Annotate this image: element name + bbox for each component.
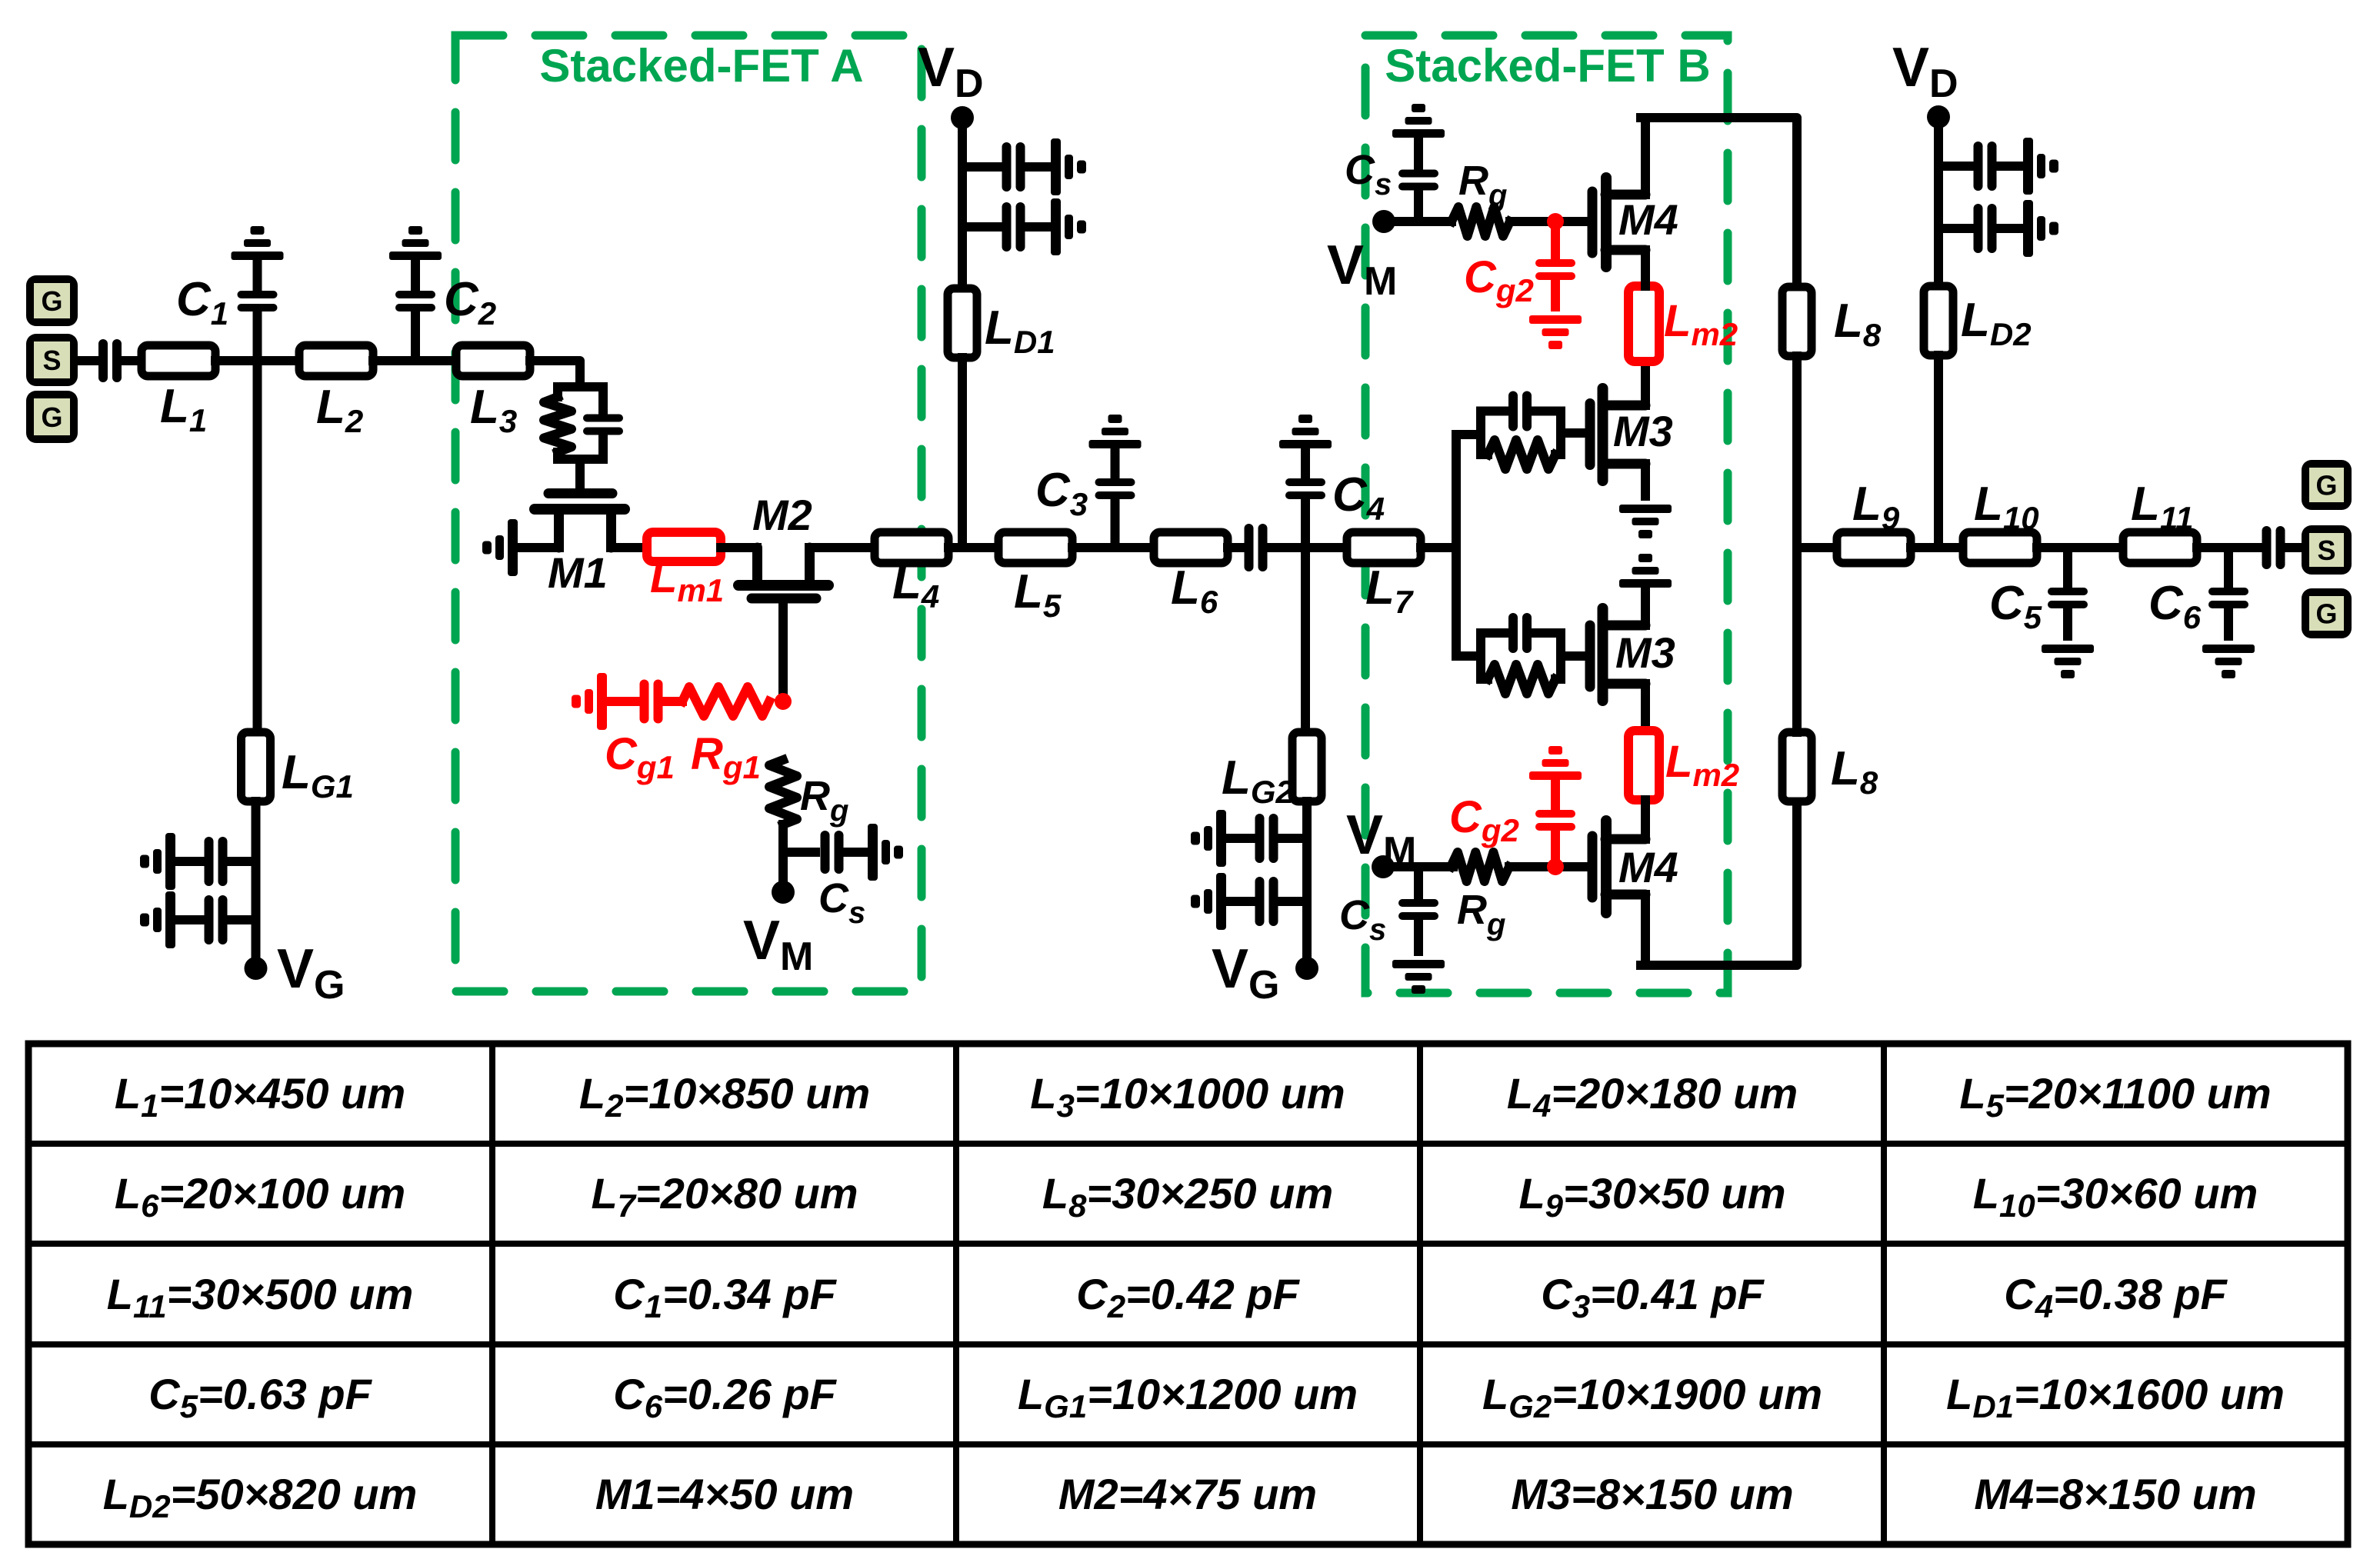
series capacitor at input: [98, 339, 122, 382]
wire bypass 2 to ground: [175, 915, 204, 924]
svg-text:M4=8×150 um: M4=8×150 um: [1974, 1470, 2256, 1518]
transmission line L7: [1347, 532, 1421, 563]
red resistor Rg1: [682, 687, 769, 716]
ground left of bypass 1: [140, 833, 175, 890]
wire C4 stem: [1301, 498, 1310, 548]
wire bypass 1 to ground: [175, 857, 204, 866]
red node M4 gate bottom: [1547, 858, 1564, 875]
transmission line L8 top: [1782, 287, 1812, 356]
bypass capacitor 2 at VG left: [205, 895, 228, 944]
lower RC loop top bar left: [1481, 628, 1509, 638]
ground right of Cs A: [868, 824, 903, 881]
node VD right: [1927, 105, 1950, 128]
wire C2 to ground: [411, 260, 420, 291]
wire bypass 1 VD right ground: [1996, 162, 2023, 171]
bottom rail to right column: [1641, 801, 1797, 965]
wire upper M3 source down: [1641, 464, 1650, 496]
wire bypass 1 VD to ground: [1025, 162, 1051, 172]
wire S pad to input cap: [78, 356, 98, 365]
resistor in upper M3 gate loop: [1488, 440, 1555, 469]
ground above C4: [1279, 415, 1332, 448]
wire C3 stem: [1111, 498, 1120, 548]
red node at M2 gate: [775, 693, 792, 710]
upper RC loop right side: [1556, 411, 1565, 455]
svg-text:L8=30×250 um: L8=30×250 um: [1042, 1169, 1333, 1224]
node VG right: [1295, 957, 1318, 980]
mirror ground above lower M3: [1619, 554, 1672, 588]
upper RC loop bottom lead right: [1555, 450, 1561, 459]
wire to upper RC loop: [1456, 430, 1481, 439]
capacitor Cs stacked-FET A: [821, 831, 844, 874]
wire lower loop to M3 gate: [1561, 651, 1586, 661]
ground above Cs top B: [1392, 104, 1445, 138]
svg-text:S: S: [2317, 535, 2335, 566]
pad G output top: [2302, 460, 2352, 510]
svg-text:L3=10×1000 um: L3=10×1000 um: [1030, 1069, 1345, 1124]
upper RC loop left side: [1476, 411, 1485, 455]
ground below upper M3: [1619, 505, 1672, 538]
transmission line L10: [1963, 532, 2037, 563]
transmission line LD2: [1924, 286, 1953, 355]
transmission line L5: [998, 532, 1072, 563]
transmission line L8 bottom: [1782, 732, 1812, 801]
wire C4 node to L7: [1305, 543, 1347, 552]
wire VM to Rg top: [1384, 217, 1452, 226]
transmission line L11: [2123, 532, 2197, 563]
wire bypass 2 VD to ground: [1025, 222, 1051, 232]
node VM bottom B: [1372, 855, 1395, 878]
transistor M3 lower: [1590, 608, 1645, 701]
svg-text:L1=10×450 um: L1=10×450 um: [115, 1069, 405, 1124]
red matching line Lm2 bottom: [1628, 731, 1659, 800]
RC loop A left side lower: [553, 452, 562, 459]
svg-text:G: G: [41, 401, 62, 433]
wire C2 stem: [411, 311, 420, 361]
transmission line LG1: [242, 732, 271, 801]
series capacitor after L6: [1245, 524, 1268, 571]
capacitor C5: [2048, 588, 2088, 608]
node VM A: [772, 881, 795, 904]
wire C5 stem: [2063, 548, 2072, 588]
wire lower M3 source down: [1641, 684, 1650, 731]
red wire Cg1 to Rg1: [662, 697, 682, 706]
svg-text:S: S: [42, 345, 61, 376]
wire Cs top to ground: [1414, 138, 1423, 169]
RC loop A bottom bar: [558, 455, 603, 464]
wire bypass branch 2 left: [228, 915, 256, 924]
wire C1 to ground: [253, 260, 262, 291]
wire L3 to gate network corner: [530, 361, 580, 387]
svg-text:Stacked-FET B: Stacked-FET B: [1385, 40, 1710, 92]
svg-text:G: G: [41, 285, 62, 317]
upper RC loop bottom lead left: [1481, 450, 1488, 459]
ground below C6: [2202, 645, 2255, 678]
ground of VD bypass 2: [1051, 198, 1086, 255]
red node M4 gate top: [1547, 213, 1564, 230]
RC loop A right side upper: [598, 387, 608, 415]
wire M1 drain to Lm1: [611, 543, 647, 552]
ground left of bypass 2: [140, 891, 175, 948]
red wire ground to Cg1: [607, 697, 637, 706]
red capacitor Cg1: [640, 680, 663, 724]
wire VM to Rg bottom: [1383, 862, 1453, 871]
node VG left: [245, 957, 268, 980]
wire L4 to L5: [948, 543, 998, 552]
wire mirror ground to lower M3 drain: [1641, 588, 1650, 625]
ground at M1 source: [482, 519, 518, 576]
svg-text:G: G: [2315, 470, 2337, 501]
wire bypass branch 2 VD left: [962, 222, 1002, 232]
wire bypass branch 2 right VG: [1278, 897, 1307, 906]
wire series cap to C4 node: [1268, 543, 1305, 552]
ground of VG right bypass 1: [1191, 810, 1226, 867]
wire LD2 to output row: [1934, 355, 1943, 548]
wire bypass branch 1 VD right: [1938, 162, 1974, 171]
transmission line L9: [1837, 532, 1911, 563]
red Cg2 top lower stem: [1551, 281, 1560, 307]
red ground above Cg2 bottom: [1529, 746, 1582, 780]
pad S input: [26, 334, 78, 386]
transmission line L1: [142, 345, 215, 376]
capacitor C2: [395, 291, 435, 311]
pad G input top: [26, 275, 78, 326]
wire gate feed vertical: [1452, 435, 1461, 656]
wire L9 to L10: [1911, 543, 1963, 552]
wire bypass branch 2 VD right: [1938, 224, 1974, 233]
wire node to LG2: [1301, 548, 1310, 732]
wire L1 to L2: [215, 356, 299, 365]
table row line 3: [28, 1341, 2348, 1347]
svg-text:M3=8×150 um: M3=8×150 um: [1511, 1470, 1793, 1518]
wire Lm1 to M2: [721, 543, 757, 552]
wire upper loop to M3 gate: [1561, 428, 1586, 438]
svg-text:M3: M3: [1613, 407, 1673, 455]
svg-text:G: G: [2315, 598, 2337, 630]
wire Cs stem top B: [1414, 192, 1423, 222]
table column line 4: [1881, 1044, 1887, 1544]
bypass capacitor 1 at VG right: [1255, 814, 1278, 863]
top rail to right column: [1641, 118, 1797, 287]
lower RC loop bottom lead right: [1555, 675, 1561, 684]
svg-text:Stacked-FET A: Stacked-FET A: [539, 40, 863, 92]
wire M2 gate stem: [778, 603, 788, 701]
wire L2 to L3: [373, 356, 456, 365]
wire Rg to M4 gate node top: [1510, 217, 1588, 226]
wire bypass 2 VD right ground: [1996, 224, 2023, 233]
red capacitor Cg2 bottom: [1535, 810, 1575, 831]
bypass capacitor 2 at VD right: [1974, 204, 1997, 253]
resistor in M1 gate network: [544, 397, 572, 452]
table row line 4: [28, 1441, 2348, 1447]
wire L10 to L11: [2037, 543, 2123, 552]
wire C6 stem: [2224, 548, 2233, 588]
ground above C1: [232, 226, 284, 260]
transistor M2: [738, 548, 828, 598]
table frame: [28, 1044, 2348, 1544]
wire Rg to VM: [778, 824, 788, 892]
transistor M4 top: [1592, 178, 1645, 267]
upper RC loop top bar right: [1531, 407, 1561, 416]
resistor Rg top B: [1452, 207, 1510, 236]
pad S output: [2302, 525, 2352, 575]
wire loop A to M1 gate: [575, 459, 585, 484]
wire L6 to series cap: [1228, 543, 1245, 552]
wire bypass branch 1 right VG: [1278, 834, 1307, 843]
svg-text:L4=20×180 um: L4=20×180 um: [1507, 1069, 1798, 1124]
bypass capacitor 2 at VG right: [1255, 877, 1278, 926]
wire M4 bottom drain to Lm2: [1641, 800, 1650, 839]
svg-text:M2=4×75 um: M2=4×75 um: [1058, 1470, 1317, 1518]
ground of VG right bypass 2: [1191, 873, 1226, 930]
wire bypass 1 right VG ground: [1226, 834, 1255, 843]
wire Cs bottom to ground: [1414, 920, 1423, 951]
wire LG2 to VG right: [1302, 801, 1312, 968]
lower RC loop right side: [1556, 633, 1565, 679]
red Cg2 bottom stem: [1551, 828, 1560, 867]
wire output cap to S pad: [2285, 543, 2302, 552]
transistor M3 upper: [1590, 388, 1645, 481]
bypass capacitor 1 at VD left: [1002, 142, 1025, 192]
capacitor in upper M3 gate loop: [1508, 391, 1532, 431]
red ground of Cg1 branch: [572, 673, 607, 730]
svg-text:L6=20×100 um: L6=20×100 um: [115, 1169, 405, 1224]
lower RC loop top bar right: [1531, 628, 1561, 638]
wire C4 to ground: [1301, 448, 1310, 478]
red ground below Cg2 top: [1529, 315, 1582, 349]
wire L8 top to output row: [1792, 356, 1802, 548]
red matching line Lm2 top: [1628, 286, 1659, 361]
lower RC loop bottom lead left: [1481, 675, 1488, 684]
capacitor C6: [2208, 588, 2248, 608]
node VM top B: [1372, 210, 1395, 233]
red Cg2 top stem: [1551, 222, 1560, 258]
ground of VD bypass 1: [1051, 138, 1086, 195]
wire Cs to ground A: [844, 848, 868, 857]
bypass capacitor 1 at VD right: [1974, 142, 1997, 191]
svg-text:L2=10×850 um: L2=10×850 um: [579, 1069, 870, 1124]
table row line 2: [28, 1241, 2348, 1247]
wire L5 to L6: [1072, 543, 1154, 552]
wire M1 source to ground: [518, 543, 559, 552]
wire VD right down: [1934, 117, 1943, 286]
wire M4 top source to Lm2: [1641, 250, 1650, 286]
wire C5 to ground: [2063, 608, 2072, 636]
ground below C5: [2042, 645, 2094, 678]
wire Cs branch A: [783, 848, 815, 857]
transmission line LD1: [948, 288, 977, 358]
wire Cs stem bottom B: [1414, 867, 1423, 898]
red capacitor Cg2 top: [1535, 259, 1575, 280]
wire rail to L9: [1797, 543, 1837, 552]
pad G output bottom: [2302, 588, 2352, 638]
table column line 1: [489, 1044, 495, 1544]
ground of VD right bypass 2: [2023, 200, 2058, 257]
wire VD down: [958, 118, 967, 288]
capacitor Cs top B: [1398, 170, 1438, 191]
svg-text:M3: M3: [1615, 628, 1675, 677]
wire Rg to M4 gate node bottom: [1509, 862, 1588, 871]
transmission line LG2: [1292, 732, 1322, 801]
pad G input bottom: [26, 391, 78, 443]
transmission line L3: [456, 345, 530, 376]
capacitor Cs bottom B: [1398, 899, 1438, 920]
transmission line L6: [1154, 532, 1228, 563]
capacitor C4: [1285, 478, 1325, 499]
RC loop A top bar: [558, 382, 603, 391]
wire L11 to output cap: [2197, 543, 2262, 552]
resistor Rg stacked-FET A: [769, 760, 797, 824]
wire C6 to ground: [2224, 608, 2233, 636]
capacitor C1: [238, 291, 278, 311]
wire bypass branch 1 VD left: [962, 162, 1002, 172]
resistor in lower M3 gate loop: [1488, 665, 1555, 694]
resistor Rg bottom B: [1451, 852, 1509, 881]
capacitor in lower M3 gate loop: [1508, 613, 1532, 653]
table row line 1: [28, 1141, 2348, 1147]
svg-text:M2: M2: [752, 491, 812, 539]
ground above C2: [389, 226, 442, 260]
wire M2 drain to L4: [809, 543, 875, 552]
bypass capacitor 1 at VG left: [205, 837, 228, 886]
table column line 2: [953, 1044, 959, 1544]
ground above C3: [1089, 415, 1142, 448]
wire LG1 to VG: [252, 801, 261, 968]
capacitor in M1 gate network: [583, 415, 623, 435]
wire bypass 2 right VG ground: [1226, 897, 1255, 906]
series capacitor at output: [2262, 526, 2285, 569]
red matching line Lm1: [647, 532, 721, 561]
ground of VD right bypass 1: [2023, 138, 2058, 195]
table column line 3: [1417, 1044, 1423, 1544]
wire M4 top drain up: [1641, 118, 1650, 195]
wire to lower RC loop: [1456, 651, 1481, 661]
transistor M4 bottom: [1592, 821, 1645, 913]
RC loop A left side with resistor: [553, 387, 562, 397]
transmission line L2: [299, 345, 373, 376]
wire node to LG1: [253, 361, 262, 732]
svg-text:M1: M1: [548, 548, 608, 597]
svg-text:M1=4×50 um: M1=4×50 um: [595, 1470, 854, 1518]
wire C1 stem: [253, 311, 262, 361]
wire L8 bottom to output row: [1792, 548, 1802, 732]
wire upper M3 drain up: [1641, 361, 1650, 405]
RC loop A right side lower: [598, 435, 608, 459]
wire L7 to gate line: [1421, 543, 1456, 552]
wire input cap to L1: [122, 356, 142, 365]
bypass capacitor 2 at VD left: [1002, 202, 1025, 252]
node VD left: [951, 106, 974, 129]
dashed box Stacked-FET A: [455, 35, 922, 991]
transistor M1: [535, 494, 625, 548]
svg-text:L5=20×1100 um: L5=20×1100 um: [1959, 1069, 2271, 1124]
red Cg2 bottom upper stem: [1551, 780, 1560, 809]
transmission line L4: [875, 532, 948, 563]
wire bypass branch 1 left: [228, 857, 256, 866]
svg-text:M4: M4: [1618, 843, 1678, 891]
dashed box Stacked-FET B: [1365, 35, 1728, 993]
wire M4 bottom source down: [1641, 894, 1650, 965]
svg-text:M4: M4: [1618, 195, 1678, 244]
upper RC loop top bar left: [1481, 407, 1509, 416]
capacitor C3: [1095, 478, 1135, 499]
lower RC loop left side: [1476, 633, 1485, 679]
ground below Cs bottom B: [1392, 960, 1445, 994]
wire C3 to ground: [1111, 448, 1120, 478]
wire LD1 to main row: [958, 358, 967, 548]
